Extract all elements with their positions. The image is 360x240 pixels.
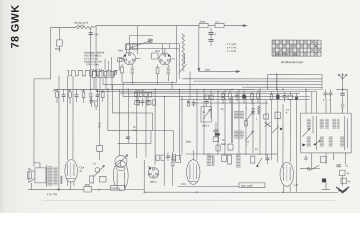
wire v x182	[181, 97, 183, 155]
wire rail y84.5	[103, 83, 322, 85]
resistor R13	[229, 89, 232, 103]
detector box mid	[201, 107, 212, 123]
coil L7 right of T2	[251, 108, 255, 115]
mains switch cluster	[300, 155, 320, 171]
arrow end of top bus	[243, 25, 247, 27]
wire v x112.5	[111, 84, 113, 112]
pot circle small	[93, 165, 104, 177]
svg-text:0,1: 0,1	[246, 142, 250, 144]
capacitor C20 under box	[213, 122, 218, 138]
T3 winding primary	[307, 119, 340, 129]
svg-text:50: 50	[255, 149, 258, 151]
wire v x146	[145, 96, 147, 156]
output transformer T4 winding a	[47, 166, 52, 186]
junction dots bottom bus	[58, 189, 284, 193]
tube V3 circle bottom	[148, 166, 159, 178]
cluster 6: resistor R16	[270, 91, 273, 104]
wire main bus y89.4	[54, 88, 322, 90]
small box mid column a	[228, 144, 233, 150]
wire v x283 lower	[282, 104, 284, 168]
table bottom text row	[273, 42, 318, 56]
wire bus y103 short	[195, 102, 268, 104]
svg-text:60·250: 60·250	[77, 25, 85, 28]
capacitor C14	[283, 91, 287, 102]
capacitor C1 series antenna	[89, 28, 93, 42]
resistor R7	[69, 89, 72, 104]
wire rail y81.1	[193, 80, 322, 82]
wire speaker bottom	[30, 183, 32, 190]
svg-text:220V~ 50Hz: 220V~ 50Hz	[86, 63, 100, 66]
wire bus left y89.4 start stub	[53, 89, 55, 92]
svg-text:6: 6	[286, 113, 288, 115]
svg-text:1000: 1000	[205, 69, 211, 72]
loudspeaker	[27, 163, 46, 183]
small labels mid right	[221, 107, 258, 147]
wire v x290.3 lower	[289, 103, 291, 162]
arrow head right on AVC line	[236, 70, 239, 72]
arrow head down onto line	[198, 68, 200, 71]
cluster caps x135-155 y100	[135, 98, 156, 106]
svg-text:0,1: 0,1	[93, 163, 97, 165]
coil L3 below V1	[131, 64, 134, 85]
cluster tone caps	[156, 152, 176, 161]
bottom bus y187.3	[178, 185, 239, 187]
svg-text:CY2: CY2	[181, 182, 187, 186]
wire right rail vertical x347.8	[346, 89, 348, 113]
wire top bus to mixer	[138, 25, 246, 27]
wire v5 pins down	[117, 160, 144, 192]
box at left edge x90	[90, 176, 94, 183]
bottom bus y189.5 left	[28, 189, 144, 191]
T4 core line	[46, 165, 48, 187]
svg-text:-x = 0,4V: -x = 0,4V	[226, 50, 236, 53]
wire vertical x90.7 down	[90, 42, 92, 89]
tube V4 output AL4 oval	[65, 160, 78, 190]
wire v x119.5	[118, 89, 120, 155]
resistor R1 box top-left	[57, 27, 63, 51]
component cluster 3: resistor R10	[187, 100, 190, 107]
wire v x96	[95, 26, 97, 90]
wire v x239	[238, 89, 240, 153]
resistor box under pot	[99, 176, 106, 182]
wire bus y99.5	[180, 99, 310, 101]
capacitor C6	[96, 89, 100, 101]
wires exiting T3 bottom	[312, 153, 334, 164]
svg-text:Netz 220V: Netz 220V	[241, 184, 253, 188]
wire elbow mid	[117, 130, 151, 143]
resistor box on bus	[84, 185, 92, 192]
electrolytic dark bar	[215, 133, 220, 135]
svg-text:30: 30	[202, 112, 205, 114]
T3 dark arrow b	[313, 140, 320, 145]
resistor stack right R22	[341, 178, 347, 184]
switch diagonal left of transformer	[272, 126, 279, 133]
wire v x197	[196, 89, 198, 160]
cluster left of transformer: resistor box	[275, 112, 280, 124]
svg-text:5000: 5000	[200, 21, 206, 24]
wire v x218	[217, 91, 219, 155]
wire v x190	[189, 71, 191, 99]
wire elbow x152.5	[151, 113, 153, 131]
mid rail y130.5	[108, 129, 173, 131]
switch cluster bottom right	[250, 156, 262, 167]
svg-text:DWZ11: DWZ11	[112, 186, 121, 190]
tube V2 top circle	[159, 49, 175, 65]
svg-text:0,1: 0,1	[345, 166, 349, 168]
coil L5 pair	[89, 89, 93, 104]
svg-text:0,1: 0,1	[216, 21, 220, 24]
capacitor C21 mid-left	[89, 96, 93, 107]
svg-text:100: 100	[94, 33, 99, 36]
capacitor C18 below antenna	[340, 89, 344, 103]
wire v x99.3	[98, 89, 100, 145]
top-right enclosure edge	[268, 75, 323, 90]
svg-text:9: 9	[323, 100, 325, 102]
box right x266	[264, 114, 269, 119]
box right of L8	[176, 155, 181, 162]
faint fold line bottom	[42, 199, 335, 201]
svg-text:0,5/0,3: 0,5/0,3	[202, 126, 210, 128]
trimmer arrow T2 lower	[245, 131, 253, 141]
resistor R18 box mid-left	[97, 145, 103, 160]
wire v x211b	[210, 89, 212, 118]
tube V6 oval bottom mid	[187, 150, 200, 184]
resistor R23 mid-left	[95, 101, 98, 110]
wire rail y78.8	[182, 78, 322, 80]
IF block row of contacts left	[92, 71, 114, 77]
wire dial row1	[127, 43, 179, 45]
capacitor C7	[136, 97, 140, 106]
tube V5 rectifier oval	[113, 160, 128, 190]
wire vertical x126.7	[126, 44, 128, 53]
volume pot circle	[115, 155, 128, 168]
labels right stack	[345, 166, 351, 184]
capacitor C2	[208, 33, 213, 40]
wire vertical x211 capacitor chain	[210, 28, 212, 33]
box pair right	[222, 155, 232, 164]
wire v x342.6 bottom	[342, 108, 344, 113]
svg-text:ƒ: ƒ	[246, 107, 248, 110]
wire v x107.9	[107, 89, 109, 130]
label V4	[79, 165, 84, 172]
power transformer T3 box	[301, 113, 352, 153]
electrolytic C13 dark	[276, 89, 279, 104]
label in detector box	[202, 112, 210, 128]
wire vertical into AVC arrow	[198, 28, 200, 69]
labels mid column	[186, 140, 258, 159]
svg-text:50: 50	[221, 109, 224, 111]
wire v x164.3	[163, 96, 165, 166]
capacitor C4	[62, 89, 66, 102]
wire v x246	[245, 97, 247, 155]
coil L10	[236, 154, 241, 168]
resistor R4 below V1	[121, 64, 124, 83]
wire vertical x162.6	[162, 44, 164, 55]
dial lamp circle	[148, 39, 152, 43]
switch arm on L2	[179, 64, 187, 74]
component cluster 2: contact row	[135, 92, 152, 97]
band switch lever top-center	[130, 35, 153, 48]
table X marks	[272, 40, 320, 55]
cap pair bottom right	[265, 154, 269, 164]
labels right caps	[323, 100, 331, 102]
fuse dark	[322, 179, 326, 183]
component cluster 1 below bus: resistor R6	[56, 89, 59, 103]
wire speaker top to transformer	[46, 169, 47, 171]
label 0,1 mid-left	[98, 122, 137, 132]
zigzag resistor right	[257, 106, 259, 114]
wire vertical x67.5	[66, 76, 68, 160]
T3 tap arrow	[303, 129, 310, 137]
bottom bus y197.5	[144, 191, 338, 193]
zigzag resistor under T4	[60, 176, 62, 184]
svg-text:0,1: 0,1	[209, 157, 213, 159]
svg-text:0,1: 0,1	[286, 110, 290, 112]
capacitor pair right C16	[324, 89, 328, 98]
wire v x179.5	[178, 89, 180, 160]
svg-text:5000: 5000	[55, 48, 61, 51]
IF transformer T2 windings	[234, 111, 244, 139]
junction dark dot	[58, 188, 60, 190]
svg-text:95: 95	[79, 170, 82, 173]
capacitor C8	[146, 97, 150, 106]
wire L8 lower lead	[172, 171, 174, 186]
wire v x277.8 lower	[277, 104, 279, 162]
wire vertical x169.4	[168, 44, 170, 49]
svg-text:5000: 5000	[186, 142, 192, 144]
T3 interior verticals	[313, 116, 348, 150]
wire v x172	[171, 81, 173, 89]
svg-text:5000: 5000	[85, 185, 91, 187]
wire v x136.8	[136, 91, 138, 158]
label 0,1 right	[286, 110, 290, 115]
svg-text:AK2: AK2	[118, 49, 123, 53]
coil L8 bottom	[171, 152, 175, 171]
tube V1 top circle	[120, 48, 141, 65]
capacitor C10	[205, 99, 209, 106]
coil L6 right	[341, 103, 344, 112]
T3 winding secondary	[307, 136, 344, 147]
coil L4 below V2	[167, 64, 170, 81]
coil L1 antenna coil	[75, 26, 93, 28]
wire v x266	[265, 100, 267, 157]
box right of legend	[118, 58, 123, 62]
wire v x204	[203, 89, 205, 155]
wire AVC arrow line	[199, 70, 237, 72]
trimmer arrow T2 upper	[245, 111, 253, 121]
wire rail y82.5 short	[123, 81, 176, 83]
cluster 5 row under bus right: resistor R12	[222, 91, 225, 104]
svg-text:25: 25	[98, 125, 101, 128]
svg-text:4 x 1,5 4,2: 4 x 1,5 4,2	[91, 68, 103, 71]
svg-text:1 Az: 1 Az	[293, 183, 299, 187]
wire bus y91.4	[96, 90, 316, 92]
wire v x231.6 IF core line a	[230, 97, 232, 143]
capacitor C9	[191, 100, 195, 108]
wire v x103	[102, 77, 104, 84]
wire v x311.8	[311, 92, 313, 114]
resistor R15	[257, 89, 260, 103]
capacitor C3	[208, 39, 213, 46]
wire v x306	[305, 90, 307, 114]
wire vertical from antenna line	[50, 27, 52, 78]
wire rail y154 bottom right section	[186, 153, 277, 155]
resistor R2 on top bus	[199, 21, 208, 28]
wire antenna input top-left horizontal	[51, 26, 75, 28]
antenna symbol	[338, 74, 347, 90]
wire from coil to junction	[93, 26, 138, 28]
svg-text:AF3: AF3	[155, 49, 160, 53]
resistor R3 on top bus	[215, 21, 224, 28]
electrolytic C12 dark	[242, 89, 245, 103]
wire dial row2	[130, 47, 180, 49]
faint fold line upper	[150, 108, 153, 110]
capacitor C11	[235, 91, 239, 101]
small box mid column b	[216, 145, 220, 151]
resistor R9	[102, 89, 105, 102]
dark dot x281	[280, 128, 282, 130]
svg-text:2: 2	[256, 119, 258, 121]
resistor R17 box	[288, 91, 293, 103]
wire vertical x59	[58, 76, 60, 188]
capacitor C17	[329, 89, 333, 98]
wire bus y93.1	[120, 92, 300, 94]
resistor R5 below V2	[156, 64, 159, 84]
resistor R14	[251, 91, 254, 104]
svg-text:60: 60	[348, 181, 351, 183]
ground chevron bottom right	[336, 187, 349, 192]
wire v x184.5 osc coil feed	[184, 54, 186, 64]
wire v x326	[325, 98, 327, 113]
wire antenna to right rail	[337, 88, 348, 90]
IF row drop wires	[94, 77, 112, 89]
wire v x225	[224, 89, 226, 155]
tube V7 oval bottom right	[280, 162, 294, 192]
svg-text:78 GWK: 78 GWK	[10, 5, 22, 49]
capacitor C19 mid	[126, 130, 130, 143]
wire stubs below tube legend	[105, 57, 111, 71]
wire to ground	[342, 175, 344, 186]
svg-text:2x50 150: 2x50 150	[135, 91, 145, 93]
wire bus y96.5	[123, 95, 310, 97]
wire v x176.5	[176, 26, 178, 83]
label box Netz	[239, 183, 265, 188]
wire vertical x179.2	[178, 44, 180, 79]
svg-text:ƒ: ƒ	[246, 144, 248, 147]
box right of switch	[320, 157, 326, 163]
mid rail y113	[112, 112, 152, 114]
resistor stack right R21	[336, 165, 345, 176]
coil L9 with core	[207, 154, 214, 167]
label V5	[110, 186, 125, 191]
wire vertical x137.5	[137, 26, 139, 54]
svg-text:4: 4	[215, 33, 217, 36]
wire v x333.7	[329, 98, 331, 113]
wave switch contact row	[67, 70, 118, 76]
grid table top right	[272, 40, 321, 56]
electrolytic C15 small dark	[295, 93, 298, 100]
wire drops bottom mid extend	[163, 166, 165, 185]
resistor R8	[82, 89, 85, 103]
T3 dark arrow a	[302, 143, 305, 146]
svg-text:2 Az 706: 2 Az 706	[47, 192, 58, 196]
wire v x128.3	[127, 89, 129, 130]
tube legend text block	[84, 52, 105, 67]
capacitor C5	[75, 89, 79, 102]
wire v x253	[252, 97, 254, 153]
wire v x260	[259, 89, 261, 155]
svg-text:ABC1: ABC1	[150, 180, 157, 184]
resistor R20	[245, 121, 248, 126]
switch wiper circle	[113, 70, 118, 75]
pot arrow in box	[203, 109, 210, 119]
wire v x276.8	[276, 73, 278, 89]
resistor R19 under	[213, 137, 219, 142]
svg-text:Drehkondensator: Drehkondensator	[281, 60, 304, 64]
box between tubes	[152, 53, 159, 59]
wire v x155.1	[154, 89, 156, 165]
tiny labels cluster1	[55, 90, 99, 92]
switch diagonal right	[264, 122, 270, 127]
wire rail y87.1	[242, 86, 322, 88]
wire v x296.5 lower	[295, 101, 297, 192]
wire v x173.4	[172, 130, 174, 151]
junction dots on buses	[90, 88, 343, 97]
svg-text:1 2 3 4 5 6 7 8 9 10 11 12 13: 1 2 3 4 5 6 7 8 9 10 11 12 13	[273, 52, 301, 56]
wire v x232.8 IF core line b	[232, 97, 234, 143]
svg-text:30: 30	[347, 173, 350, 175]
wire vertical x119.2	[118, 58, 120, 71]
oscillator coil L2 zigzag	[182, 34, 184, 71]
wire v x271.5	[270, 104, 272, 160]
wire v x123	[122, 82, 124, 96]
output transformer T4 winding b	[54, 167, 58, 185]
svg-text:5000: 5000	[221, 144, 227, 146]
mixer cluster boxes under lever	[125, 44, 137, 50]
wire vertical x73	[72, 76, 74, 160]
cluster 4: resistor R11 box	[205, 95, 213, 99]
wire elbow left x34	[34, 79, 51, 167]
